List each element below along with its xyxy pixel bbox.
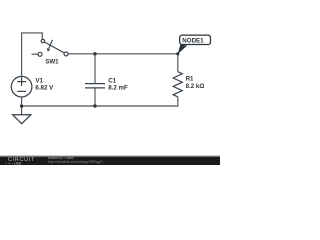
- svg-text:6.82 V: 6.82 V: [35, 85, 54, 92]
- wire from V1 top to switch SW1: [22, 33, 43, 77]
- svg-text:R1: R1: [186, 76, 194, 83]
- capacitor C1: [85, 84, 105, 88]
- svg-text:∿∿┄ LAB: ∿∿┄ LAB: [5, 161, 22, 165]
- svg-text:NODE1: NODE1: [182, 38, 204, 45]
- ground: [13, 115, 31, 124]
- wire top rail from SW1 to NODE1 corner: [68, 53, 178, 55]
- svg-text:V1: V1: [35, 78, 43, 85]
- svg-text:8.2 mF: 8.2 mF: [108, 85, 128, 92]
- wire V1 bottom lead to ground: [21, 97, 23, 115]
- switch SW1 arrow head: [47, 48, 51, 52]
- svg-text:8.2 kΩ: 8.2 kΩ: [186, 83, 205, 90]
- svg-text:http://circuitlab.com/c4xkgx78: http://circuitlab.com/c4xkgx7897qg7/: [48, 160, 103, 164]
- svg-text:C1: C1: [108, 78, 116, 85]
- resistor R1: [173, 72, 182, 97]
- NODE1 flag box: [180, 35, 211, 44]
- node junction dot bottom rail / V1 / ground: [20, 104, 23, 107]
- node junction dot top rail / C1: [93, 52, 96, 55]
- wire resistor R1 top lead: [177, 54, 179, 72]
- node junction dot bottom rail / C1: [93, 104, 96, 107]
- wire capacitor C1 top lead: [94, 54, 96, 84]
- svg-text:SW1: SW1: [45, 58, 59, 65]
- NODE1 flag pointer: [178, 44, 187, 54]
- switch SW1: [38, 39, 68, 56]
- wire SW1 open throw stub: [32, 53, 39, 55]
- V1 plus sign: [17, 77, 26, 91]
- node junction dot at NODE1: [176, 52, 179, 55]
- wire bottom rail from R1 to V1/ground: [22, 97, 178, 106]
- V1 minus sign: [17, 90, 26, 92]
- wire capacitor C1 bottom lead: [94, 88, 96, 106]
- voltage source V1: [11, 76, 32, 97]
